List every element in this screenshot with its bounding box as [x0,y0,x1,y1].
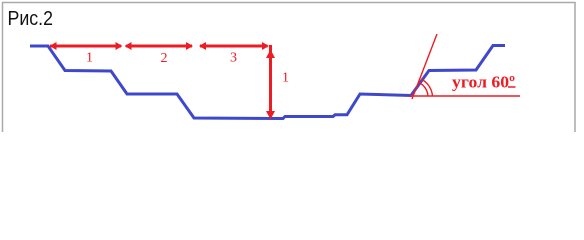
wire red angle base line [409,95,520,97]
node arrowhead right of segment 3 [262,42,269,50]
underline of ordinal sign [508,86,516,88]
node arrowhead left of segment 3 [199,42,206,50]
svg-text:угол 60º: угол 60º [452,73,515,92]
node arrowhead right of segment 1 [116,42,123,50]
wire red angle slope line [412,34,437,99]
border top [2,2,576,4]
node arrowhead down of vertical dimension [266,111,275,120]
node arrowhead up of vertical dimension [266,50,275,59]
svg-text:1: 1 [86,51,93,66]
node arrowhead right of segment 2 [186,42,193,50]
svg-text:Рис.2: Рис.2 [8,7,54,30]
wire red dimension segment 3 [200,45,268,48]
svg-text:3: 3 [230,51,237,66]
wire red vertical dimension line [269,45,272,112]
wire red dimension segment 1 [50,45,121,48]
node angle arc inner [419,83,428,97]
border right [574,2,576,132]
node arrowhead left of segment 1 [50,42,57,50]
node arrowhead left of segment 2 [125,42,132,50]
svg-text:2: 2 [161,51,168,66]
wire red dimension segment 2 [126,45,192,48]
node angle arc outer [421,79,433,96]
wire blue terrain profile polyline [30,46,505,119]
border left [2,2,4,132]
svg-text:1: 1 [282,71,289,86]
